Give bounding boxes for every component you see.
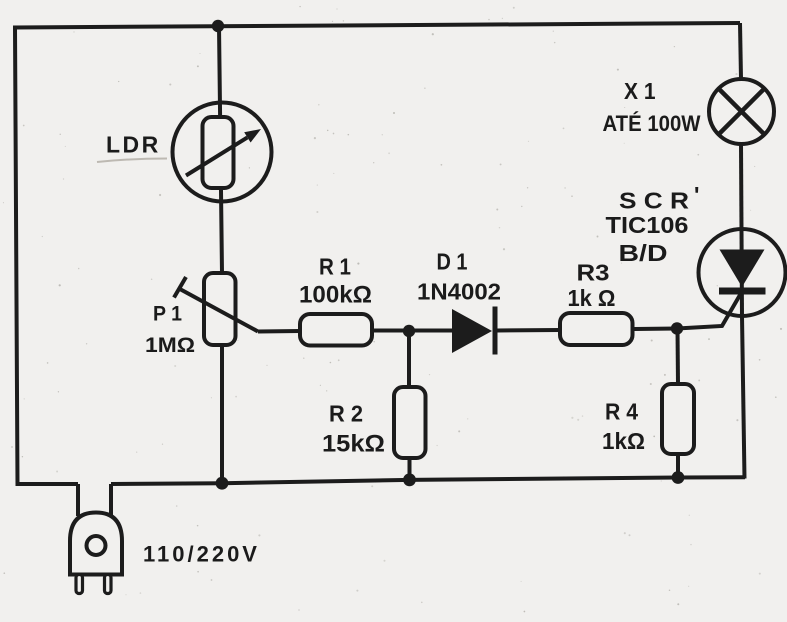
- node P1 bottom: [216, 477, 229, 490]
- resistor R2: [394, 387, 426, 458]
- plug 110/220V: [70, 513, 122, 575]
- node top junction: [212, 20, 224, 32]
- wire D1 to R3: [497, 328, 560, 333]
- wire bottom rail: [111, 477, 745, 484]
- wire R2 to bottom rail: [408, 458, 412, 480]
- node R2 bottom: [403, 473, 416, 486]
- svg-text:S C R: S C R: [619, 188, 689, 214]
- wire right rail upper: [740, 23, 741, 79]
- svg-text:TIC106: TIC106: [606, 212, 689, 238]
- svg-text:LDR: LDR: [106, 132, 161, 158]
- resistor R4: [662, 384, 694, 454]
- svg-text:1k Ω: 1k Ω: [568, 285, 616, 311]
- svg-text:ATÉ 100W: ATÉ 100W: [603, 111, 701, 136]
- svg-text:R 4: R 4: [605, 399, 638, 425]
- svg-text:X 1: X 1: [624, 78, 656, 104]
- wire R1 to D1: [372, 329, 452, 333]
- svg-text:P 1: P 1: [153, 303, 182, 326]
- wire gate: [677, 288, 744, 329]
- wire wiper to R1: [258, 329, 300, 334]
- svg-text:': ': [694, 182, 699, 208]
- wire top+left+bottom-left rails: [15, 23, 740, 484]
- wire plug right lead: [109, 484, 113, 516]
- svg-text:100kΩ: 100kΩ: [299, 282, 372, 309]
- svg-text:15kΩ: 15kΩ: [322, 431, 385, 458]
- node R4 bottom: [672, 471, 685, 484]
- diode D1: [452, 309, 492, 353]
- wire lamp to SCR: [741, 144, 742, 316]
- svg-text:1kΩ: 1kΩ: [602, 428, 645, 454]
- wire R4 to bottom rail: [676, 454, 680, 478]
- wire LDR / P1 branch: [219, 26, 222, 484]
- resistor R3: [560, 313, 633, 345]
- node gate: [671, 322, 683, 334]
- svg-text:R3: R3: [577, 260, 610, 286]
- wire plug left lead: [76, 484, 80, 516]
- wire gate node to R4: [676, 329, 681, 385]
- lamp X1: [709, 79, 774, 144]
- node A: [403, 325, 415, 337]
- wire R3 to gate node: [633, 327, 678, 332]
- resistor R1: [300, 314, 372, 346]
- svg-text:110/220V: 110/220V: [143, 542, 260, 567]
- svg-text:B/D: B/D: [619, 240, 668, 266]
- svg-text:1MΩ: 1MΩ: [145, 333, 195, 357]
- potentiometer P1: [204, 273, 236, 345]
- svg-text:R 1: R 1: [319, 254, 351, 280]
- svg-text:R 2: R 2: [329, 401, 363, 427]
- wire SCR to bottom rail: [742, 316, 745, 479]
- SCR U1: [699, 229, 786, 316]
- LDR: [173, 103, 272, 202]
- svg-text:D 1: D 1: [437, 249, 468, 275]
- svg-text:1N4002: 1N4002: [417, 279, 501, 305]
- wire smudge: [97, 159, 167, 163]
- wire node A to R2: [407, 331, 411, 387]
